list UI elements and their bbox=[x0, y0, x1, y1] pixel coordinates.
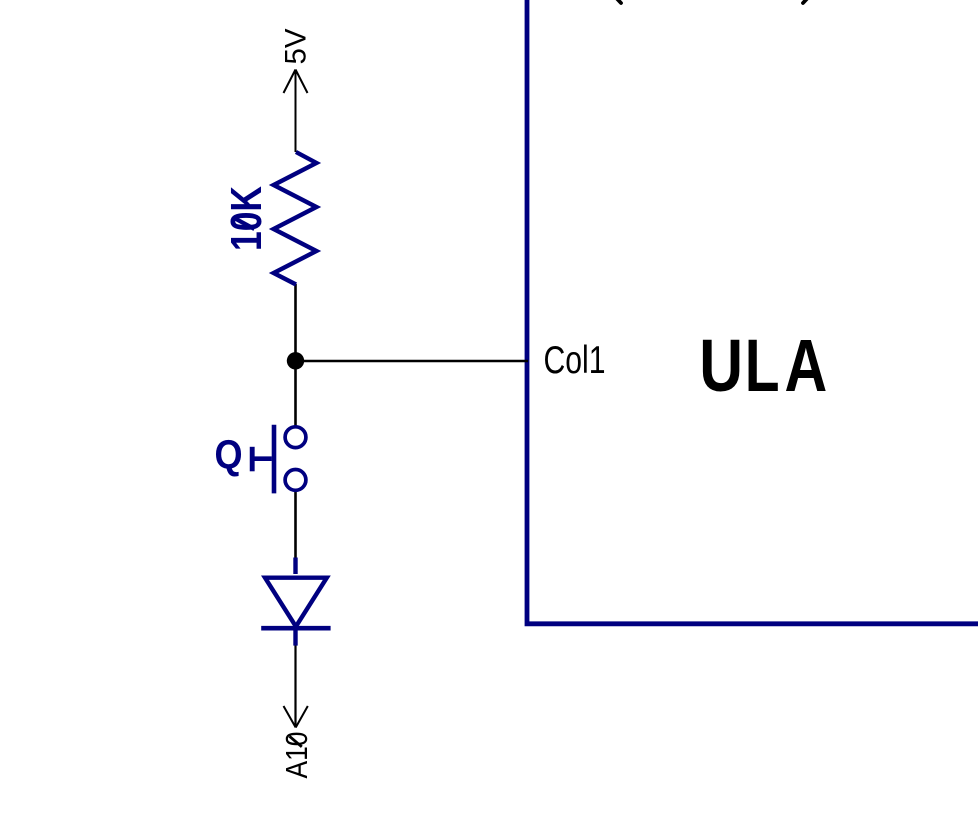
svg-text:5V: 5V bbox=[279, 28, 312, 64]
svg-text:U: U bbox=[699, 325, 743, 407]
svg-text:Col1: Col1 bbox=[544, 339, 606, 382]
svg-text:Q: Q bbox=[215, 432, 243, 478]
svg-text:L: L bbox=[745, 324, 780, 407]
svg-text:A: A bbox=[785, 325, 828, 408]
svg-text:A10: A10 bbox=[279, 732, 314, 779]
svg-text:10K: 10K bbox=[222, 186, 271, 251]
